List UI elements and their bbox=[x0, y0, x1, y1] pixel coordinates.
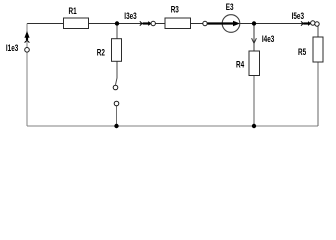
svg-text:R2: R2 bbox=[97, 47, 106, 57]
svg-text:R3: R3 bbox=[171, 4, 180, 14]
svg-text:I5e3: I5e3 bbox=[292, 11, 305, 21]
svg-text:E3: E3 bbox=[226, 2, 234, 12]
svg-text:I3e3: I3e3 bbox=[124, 11, 137, 21]
svg-text:I1e3: I1e3 bbox=[6, 43, 19, 53]
svg-text:R1: R1 bbox=[69, 6, 78, 16]
svg-text:R4: R4 bbox=[236, 59, 245, 69]
svg-text:R5: R5 bbox=[298, 47, 307, 57]
svg-text:I4e3: I4e3 bbox=[262, 34, 275, 44]
